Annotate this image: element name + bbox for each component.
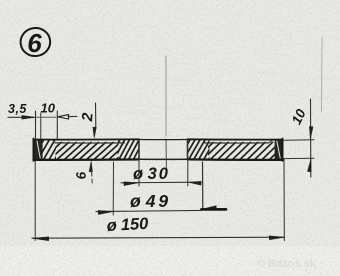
hole right edge <box>187 140 189 160</box>
section left edge <box>33 139 35 161</box>
extension line 3.5 offset <box>40 113 42 139</box>
section inner step line right <box>204 142 269 144</box>
extension from top right corner <box>284 139 314 141</box>
section bottom edge <box>34 158 140 161</box>
dim line phi150 <box>32 237 284 238</box>
extension line 13.5 offset <box>56 111 58 139</box>
balloon circle part number 6 <box>19 26 52 58</box>
dim line for 2 <box>95 103 97 127</box>
left rim solid block <box>34 140 43 160</box>
hole left edge <box>138 140 140 160</box>
svg-text:© Bazoš.sk: © Bazoš.sk <box>257 258 317 270</box>
extension phi150 left <box>34 161 36 241</box>
svg-text:3,5: 3,5 <box>8 102 27 116</box>
heavy left-pointing arrow phi49 <box>202 206 217 211</box>
extension phi30 right <box>187 161 189 186</box>
hatch left mid zone <box>35 142 136 160</box>
faint vertical crease <box>321 38 324 112</box>
extension phi150 right <box>283 159 285 241</box>
section right edge <box>282 139 284 161</box>
extension phi30 left <box>138 161 140 186</box>
center line <box>165 56 167 136</box>
svg-text:ø30: ø30 <box>133 165 170 183</box>
extension from bottom right corner <box>284 157 314 159</box>
dim line phi30 <box>121 181 198 184</box>
svg-text:10: 10 <box>41 101 56 116</box>
dim line 3,5 / 10 <box>8 116 34 118</box>
section top edge <box>34 138 140 140</box>
svg-text:6: 6 <box>27 28 42 58</box>
dim line for 6 <box>89 161 93 172</box>
svg-text:2: 2 <box>79 112 97 123</box>
right rim solid block <box>275 140 283 160</box>
extension phi49 right <box>202 162 204 209</box>
hatch left dense (near hole) <box>104 140 148 160</box>
hatch left steep zone <box>27 140 66 160</box>
open arrow tip at 10-dim right <box>58 115 69 119</box>
hatch right dense (near hole) <box>174 140 221 160</box>
label phi150 <box>106 215 149 235</box>
section inner step line left <box>55 142 125 144</box>
svg-text:ø49: ø49 <box>130 191 171 211</box>
dim line phi49 <box>96 210 201 211</box>
hatch right mid zone <box>188 142 295 160</box>
extension phi49 left <box>112 162 114 215</box>
vertical dim line 10 <box>310 99 312 177</box>
svg-text:ø150: ø150 <box>106 215 149 235</box>
extension line at bar left edge up <box>35 111 37 138</box>
